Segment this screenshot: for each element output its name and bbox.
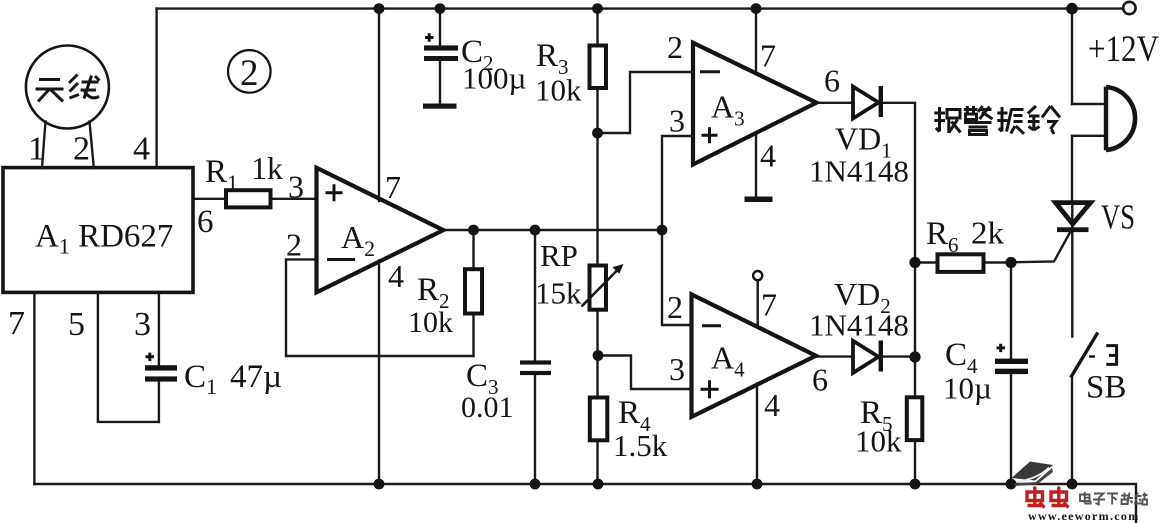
wire A1 pin3 to C1 xyxy=(158,292,160,422)
wire VS gate from R6 node xyxy=(1011,232,1071,263)
antenna neck leads xyxy=(42,122,94,168)
wire A4 pin7 stub and terminal xyxy=(757,280,759,327)
svg-text:2: 2 xyxy=(667,29,683,65)
capacitor C4 plates xyxy=(995,359,1028,364)
watermark zai xyxy=(1121,493,1133,505)
wire VD2 cathode to node xyxy=(881,355,915,357)
antenna circle xyxy=(26,46,109,129)
svg-text:4: 4 xyxy=(764,387,780,423)
resistor R3 xyxy=(590,46,607,89)
node dots bottom rail xyxy=(374,479,385,490)
svg-text:10k: 10k xyxy=(408,306,453,339)
svg-text:1: 1 xyxy=(28,131,45,168)
wire R1 to A2 pin3 xyxy=(271,198,317,200)
wire VD1 cathode right and down xyxy=(881,103,915,263)
svg-text:6: 6 xyxy=(812,362,828,398)
label jing (alarm) xyxy=(964,106,993,135)
svg-text:3: 3 xyxy=(288,169,304,205)
wire R2 bottom lead xyxy=(472,313,474,356)
wire R3 leads xyxy=(596,9,598,133)
wire bell to VS xyxy=(1071,136,1073,203)
wire R3 node to A3 pin2 xyxy=(598,72,694,133)
wire A2 pin2 feedback loop xyxy=(286,259,474,356)
plus C1 xyxy=(146,353,155,361)
svg-text:A1 RD627: A1 RD627 xyxy=(35,219,173,259)
watermark chong 2 xyxy=(1051,487,1069,508)
resistor R2 xyxy=(465,269,482,313)
wire bottom ground rail xyxy=(34,484,1136,523)
plus C4 xyxy=(997,344,1006,352)
node dot RP bottom xyxy=(593,350,604,361)
label tian (antenna) xyxy=(36,80,64,102)
diode VD1 xyxy=(853,87,879,119)
op-amp A4 xyxy=(692,294,816,417)
svg-text:100µ: 100µ xyxy=(462,61,526,96)
resistor R1 xyxy=(226,190,271,207)
wire A2 output line xyxy=(443,229,662,231)
wire A2 pin4 to bottom rail xyxy=(378,261,380,485)
wire C3 top lead xyxy=(534,230,536,361)
note circle 2 xyxy=(228,50,271,93)
svg-text:7: 7 xyxy=(8,305,25,342)
svg-text:1N4148: 1N4148 xyxy=(809,308,909,343)
wire node to A3 pin3 and A4 pin2 xyxy=(662,136,693,325)
svg-text:2k: 2k xyxy=(971,215,1004,251)
wire A3 pin7 to rail xyxy=(755,9,757,74)
svg-text:6: 6 xyxy=(824,63,840,99)
potentiometer RP body xyxy=(590,266,607,310)
watermark chong 1 xyxy=(1027,487,1045,508)
wire C2 leads xyxy=(439,9,441,104)
svg-text:10µ: 10µ xyxy=(943,371,992,406)
resistor R6 xyxy=(938,254,984,272)
op-amp A3 xyxy=(693,43,816,165)
wire A1 pin5 loop to C1 xyxy=(98,292,159,422)
svg-text:+12V: +12V xyxy=(1088,29,1159,70)
svg-text:15k: 15k xyxy=(535,276,582,311)
svg-text:1k: 1k xyxy=(251,150,283,186)
watermark dian xyxy=(1080,492,1091,504)
switch SB actuator xyxy=(1106,344,1116,366)
wire R6 leads xyxy=(915,261,1011,263)
bell alarm ringer xyxy=(1104,87,1108,150)
wire A1 pin7 down xyxy=(33,292,35,484)
wire A2 pin7 to rail xyxy=(378,9,380,201)
potentiometer RP arrow xyxy=(582,270,619,307)
svg-text:3: 3 xyxy=(134,306,151,343)
svg-text:3: 3 xyxy=(669,351,685,387)
wire RP node to A4 pin3 xyxy=(599,356,692,390)
label ling (alarm) xyxy=(1028,106,1060,134)
svg-text:5: 5 xyxy=(68,306,85,343)
node dots top rail xyxy=(374,3,385,14)
svg-text:RP: RP xyxy=(540,238,578,273)
capacitor C2 plates xyxy=(424,45,458,50)
svg-text:VS: VS xyxy=(1101,198,1135,237)
svg-text:2: 2 xyxy=(667,289,683,325)
svg-text:1.5k: 1.5k xyxy=(613,428,668,463)
wire R2 top lead xyxy=(472,230,474,270)
watermark xia xyxy=(1107,494,1118,505)
wire A1 pin6 to R1 xyxy=(193,198,226,200)
svg-text:www.eeworm.com: www.eeworm.com xyxy=(1028,509,1140,523)
ground C2 xyxy=(423,104,457,109)
svg-text:SB: SB xyxy=(1086,370,1126,406)
wire A3 pin4 to ground xyxy=(755,133,757,197)
svg-text:2: 2 xyxy=(73,131,90,168)
node dots diode column xyxy=(909,257,920,268)
wire A4 pin4 to bottom rail xyxy=(756,384,758,485)
svg-text:1N4148: 1N4148 xyxy=(809,154,909,189)
wire A4 output to VD2 xyxy=(816,355,853,357)
svg-text:7: 7 xyxy=(760,38,776,74)
wire A3 output to VD1 xyxy=(816,102,853,104)
wire SB bottom to rail xyxy=(1071,377,1073,484)
wire VS through and cathode down to switch xyxy=(1071,203,1073,337)
svg-text:7: 7 xyxy=(385,169,401,205)
wire C4 top lead xyxy=(1010,263,1012,359)
IC A1 box xyxy=(3,168,193,293)
node dot R3 bottom xyxy=(592,128,603,139)
svg-text:10k: 10k xyxy=(855,424,902,459)
svg-text:2: 2 xyxy=(240,53,259,94)
ground A3 xyxy=(745,197,773,203)
switch SB blade xyxy=(1071,333,1098,378)
label bao (alarm) xyxy=(934,107,960,133)
op-amp A2 xyxy=(317,168,444,293)
label xian (antenna) xyxy=(69,75,100,99)
wire node column VD1/VD2/R5 xyxy=(914,263,916,485)
svg-text:7: 7 xyxy=(761,287,777,323)
wire top supply rail xyxy=(157,7,1123,9)
svg-text:4: 4 xyxy=(760,138,776,174)
resistor R5 xyxy=(907,397,923,440)
svg-text:2: 2 xyxy=(286,227,302,263)
wire bell leads xyxy=(1072,104,1105,136)
terminal +12V open circle xyxy=(1123,2,1135,14)
capacitor C1 plates xyxy=(145,365,177,370)
svg-text:4: 4 xyxy=(388,258,404,294)
plus C2 xyxy=(425,33,434,41)
resistor R4 xyxy=(590,398,608,441)
wire RP top lead from R3 node xyxy=(596,133,598,266)
wire +12V drop to bell xyxy=(1071,9,1073,104)
svg-text:0.01: 0.01 xyxy=(461,391,514,424)
watermark zi xyxy=(1093,494,1105,505)
svg-text:3: 3 xyxy=(669,103,685,139)
diode VD2 xyxy=(853,341,879,373)
svg-text:4: 4 xyxy=(133,131,150,168)
label zhen (alarm) xyxy=(997,107,1024,134)
node dots A2 output line xyxy=(468,225,479,236)
wire C3 bottom lead xyxy=(534,375,536,484)
wire RP bottom lead xyxy=(596,310,598,356)
thyristor VS xyxy=(1056,203,1091,224)
svg-text:6: 6 xyxy=(197,204,214,240)
watermark logo cap xyxy=(1012,462,1054,481)
watermark zhan xyxy=(1134,493,1148,505)
wire R4 leads xyxy=(596,356,598,485)
wire C4 bottom lead xyxy=(1010,374,1012,484)
svg-text:10k: 10k xyxy=(535,73,582,108)
wire pin4 drop from rail to A1 box xyxy=(155,9,157,168)
svg-text:47µ: 47µ xyxy=(230,359,282,395)
capacitor C3 plates xyxy=(520,360,551,364)
